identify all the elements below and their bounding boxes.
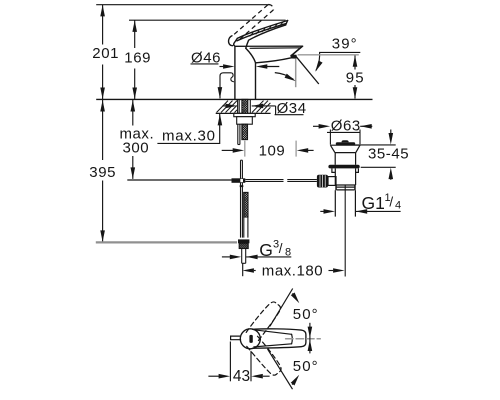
- spout tip face: [292, 46, 303, 55]
- gray stream vertical: [295, 59, 297, 87]
- horizontal rod to waste: [245, 179, 283, 181]
- deck hatch left: [217, 101, 238, 113]
- SIDE VIEW DIMENSIONS LEFT: [96, 5, 285, 242]
- svg-text:Ø34: Ø34: [277, 100, 307, 117]
- TOP VIEW OF LEVER: [231, 300, 321, 378]
- lever second (ridge) line: [237, 24, 286, 41]
- plug lift bump: [342, 141, 348, 143]
- dimension 50deg lower: [268, 349, 319, 389]
- svg-text:395: 395: [89, 164, 116, 181]
- clamp block: [232, 178, 246, 183]
- waste body upper: [334, 153, 336, 165]
- svg-text:max.30: max.30: [162, 127, 216, 144]
- lever top hatching: [250, 22, 283, 36]
- svg-text:50°: 50°: [293, 306, 319, 323]
- svg-text:max.180: max.180: [262, 263, 323, 280]
- svg-text:109: 109: [259, 142, 286, 159]
- center line extension: [344, 186, 346, 277]
- spout top edge: [235, 45, 302, 47]
- POP-UP ROD MECHANISM: [127, 160, 317, 263]
- extension line top (201 level): [96, 4, 269, 6]
- svg-text:300: 300: [123, 139, 150, 156]
- spout underside: [256, 58, 291, 63]
- body left edge: [234, 46, 236, 99]
- reference gray line (basin bottom): [96, 241, 237, 243]
- POP-UP WASTE: [317, 141, 360, 277]
- svg-text:201: 201: [92, 45, 119, 62]
- lever outline: [253, 329, 306, 348]
- threaded shank in deck: [242, 99, 248, 113]
- extension line 169 level: [129, 19, 286, 21]
- label underline leader: [316, 52, 360, 70]
- stud lines in deck: [237, 99, 239, 113]
- dimension line 395: [102, 100, 104, 160]
- leader line from max300 level: [127, 179, 231, 181]
- svg-text:50°: 50°: [293, 358, 319, 375]
- body right edge: [255, 63, 257, 99]
- connection nut: [238, 239, 249, 243]
- lever face lines: [254, 330, 292, 335]
- front tab: [231, 336, 241, 340]
- under-seal lip: [332, 168, 335, 172]
- svg-text:4: 4: [395, 200, 401, 212]
- dimension G3/8: [222, 239, 291, 260]
- dimension Ø34: [222, 100, 306, 117]
- dimension 43: [208, 342, 269, 386]
- rubber seal: [328, 165, 359, 169]
- gray center line: [286, 338, 321, 340]
- spout outlet block: [291, 55, 296, 58]
- svg-text:35-45: 35-45: [368, 145, 409, 162]
- dimension max.180: [242, 263, 344, 280]
- flange sides: [330, 145, 335, 152]
- svg-text:8: 8: [285, 246, 291, 258]
- dimension line max300: [132, 100, 134, 126]
- deck hatch right: [252, 101, 270, 113]
- tube below: [243, 217, 245, 238]
- dimension 50deg upper: [270, 289, 319, 327]
- svg-text:169: 169: [124, 49, 151, 66]
- small nut on rod: [240, 185, 244, 187]
- threaded end: [239, 243, 248, 248]
- upper leader with hook: [220, 73, 231, 99]
- arrowheads left dims: [100, 5, 137, 242]
- deck (mounting surface) top line: [96, 98, 372, 100]
- spout top second line: [250, 47, 300, 50]
- svg-text:/: /: [389, 195, 393, 210]
- knob connector: [328, 177, 336, 186]
- lever top edge: [237, 21, 287, 39]
- dimension max.30: [157, 73, 234, 145]
- lever front lip arc: [229, 36, 233, 46]
- index mark: [249, 335, 252, 343]
- coupling ring: [337, 186, 355, 188]
- flange top line: [330, 144, 360, 146]
- flow direction arrow: [275, 73, 294, 80]
- threaded shank below nut: [242, 124, 248, 139]
- svg-text:G: G: [259, 240, 273, 260]
- washer: [234, 113, 255, 116]
- pivot circle: [240, 329, 260, 349]
- LEVER (solid, closed): [229, 21, 288, 49]
- svg-text:G1: G1: [362, 193, 385, 213]
- dimension Ø63: [313, 118, 372, 145]
- lever front face: [234, 38, 238, 45]
- svg-text:43: 43: [233, 368, 250, 385]
- svg-text:95: 95: [346, 70, 365, 87]
- svg-text:39°: 39°: [332, 35, 358, 52]
- dimension 109: [222, 141, 314, 160]
- dimension line 169: [134, 20, 136, 48]
- dimension line 201: [102, 5, 104, 45]
- waste body lower: [334, 168, 336, 185]
- stud below nut: [237, 124, 239, 144]
- tailpipe walls: [334, 190, 336, 216]
- dimension Ø46: [191, 49, 280, 69]
- dashed lever rotated up 50: [246, 300, 284, 342]
- threaded supply tube: [244, 192, 248, 217]
- stream angle line: [296, 56, 319, 84]
- dimension 35-45: [354, 130, 409, 180]
- center axis arrows right of lever: [308, 323, 313, 354]
- dimension 39deg: [275, 35, 361, 87]
- vertical pull rod: [240, 160, 242, 237]
- FAUCET BODY: [235, 46, 303, 99]
- plug head bar: [336, 142, 355, 145]
- cartridge dome curve: [246, 48, 256, 63]
- MOUNTING SHANK under deck: [234, 99, 255, 144]
- mounting nut: [237, 117, 253, 125]
- outlet reference gray line: [298, 54, 359, 56]
- dimension 95: [346, 55, 365, 98]
- dimension G1 1/4: [320, 192, 401, 214]
- knurled knob: [317, 175, 328, 188]
- lower leader: [157, 114, 219, 143]
- lever tip face: [286, 21, 288, 25]
- deck bottom line: [216, 112, 271, 114]
- lever underside: [246, 25, 286, 48]
- dashed lever rotated down 50: [246, 336, 284, 378]
- LEVER raised (dashed): [234, 5, 273, 40]
- G3/8 pipe: [241, 249, 243, 264]
- svg-text:/: /: [279, 241, 283, 256]
